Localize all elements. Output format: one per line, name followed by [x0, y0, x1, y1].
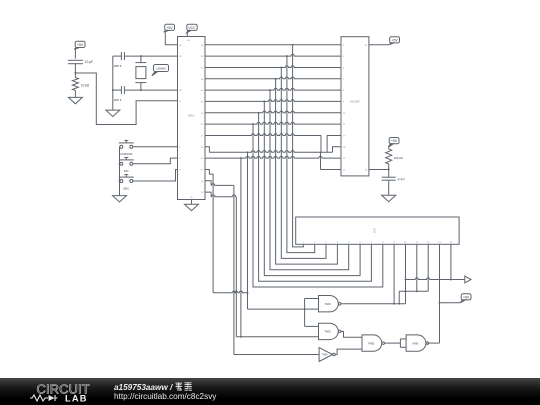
capacitor C1 10uF	[68, 60, 93, 64]
wire LCD pin13 hang	[439, 244, 441, 343]
wire XTAL1	[124, 55, 177, 57]
wire XTAL2	[124, 89, 177, 91]
wire LCD E row	[399, 290, 428, 303]
wire	[74, 64, 76, 78]
wire	[165, 32, 177, 45]
wire bus AD2	[205, 66, 341, 69]
wire WR	[205, 156, 341, 159]
ground	[68, 97, 82, 103]
capacitor C3 20pF	[114, 86, 125, 102]
wire data D0 to LCD	[293, 45, 304, 247]
output port arrow	[465, 276, 471, 283]
wire NAND4 input tie	[400, 339, 406, 347]
svg-text:+5V: +5V	[392, 38, 399, 42]
wire data D2 to LCD	[281, 68, 326, 259]
capacitor C4 47pF	[382, 177, 406, 181]
wire	[113, 55, 122, 57]
svg-text:VCC: VCC	[189, 26, 197, 30]
ground	[382, 195, 396, 201]
crystal X1 12MHz	[135, 56, 146, 90]
wire data D7 to LCD	[253, 124, 383, 287]
wire RD	[205, 147, 341, 153]
wire	[113, 89, 122, 91]
power flag VCC	[187, 24, 198, 33]
svg-text:12MHZ: 12MHZ	[156, 66, 166, 70]
svg-text:DEC: DEC	[123, 186, 129, 190]
wire	[133, 170, 178, 182]
wire LCD pin9 hang	[393, 244, 395, 303]
wire NAND4 out	[427, 342, 439, 344]
svg-text:7400: 7400	[324, 302, 331, 306]
wire LCD pin12 hang	[427, 244, 429, 291]
wire LCD pin10 hang	[405, 244, 407, 303]
svg-text:8051: 8051	[188, 113, 194, 117]
wire	[388, 180, 390, 195]
wire data D3 to LCD	[276, 79, 338, 264]
power flag +5V (EA pin31)	[164, 24, 175, 32]
ground	[106, 110, 120, 116]
svg-text:+5V: +5V	[463, 295, 470, 299]
wire data D6 to LCD	[259, 113, 372, 281]
svg-text:7400: 7400	[412, 341, 419, 345]
svg-text:CURSOR: CURSOR	[120, 152, 132, 156]
power flag +5V (DS12887)	[389, 37, 400, 45]
nand gate U2A 7400	[319, 296, 341, 312]
wire P3 stair C	[205, 192, 236, 337]
wire bus AD0	[205, 44, 341, 46]
op-amp U5 LCD module	[296, 217, 459, 244]
op-amp U1 8051 MCU	[178, 37, 206, 200]
svg-text:10 kΩ: 10 kΩ	[81, 84, 90, 88]
wire NAND1 inputs tie	[305, 299, 319, 327]
wire	[133, 158, 178, 164]
capacitor C2 20pF	[114, 52, 125, 68]
op-amp U6 DS12887 RTC	[341, 37, 369, 176]
wire VCC DS12887	[369, 44, 389, 46]
inverter U4A 7404	[319, 348, 335, 362]
wire bus AD4	[205, 88, 341, 91]
wire bus AD1	[205, 54, 341, 57]
resistor R1 10k	[72, 78, 89, 91]
ground	[185, 204, 199, 210]
switch S2 INC	[119, 157, 134, 173]
switch S1 CURSOR	[119, 140, 134, 156]
wire	[186, 32, 188, 36]
wire NAND1 out	[341, 303, 406, 305]
wire CS	[321, 152, 342, 169]
wire gate feed 2	[240, 158, 242, 338]
nand gate U3A 7400	[362, 335, 384, 351]
wire gate feed 3	[236, 336, 318, 338]
svg-text:7400: 7400	[324, 330, 331, 334]
nand gate U3B 7400	[406, 335, 428, 351]
wire bus AD7	[205, 122, 341, 125]
ground	[113, 196, 127, 202]
svg-text:+5V: +5V	[77, 43, 84, 47]
attribution text	[114, 382, 216, 401]
svg-text:20P F: 20P F	[114, 64, 122, 68]
power flag +5V (pullup)	[388, 138, 399, 148]
wire cap ground rail	[112, 56, 114, 110]
wire LCD pin11 hang	[416, 244, 418, 291]
wire	[388, 147, 390, 149]
wire NAND2 out	[341, 331, 362, 337]
power flag +5V (reset RC)	[74, 41, 85, 49]
svg-text:+5V: +5V	[391, 139, 398, 143]
svg-text:7400: 7400	[368, 341, 375, 345]
wire	[388, 164, 390, 177]
wire to NAND A inputs	[213, 291, 248, 294]
svg-text:INC: INC	[124, 169, 129, 173]
wire	[74, 91, 76, 98]
label 100k	[394, 156, 404, 160]
svg-text:20P F: 20P F	[114, 98, 122, 102]
wire NAND2 inA	[305, 325, 319, 327]
wire +5V hook	[440, 302, 461, 304]
svg-text:DS12887: DS12887	[350, 102, 360, 104]
wire data D1 to LCD	[287, 56, 315, 253]
wire	[74, 49, 76, 58]
wire gate feed 4	[234, 354, 319, 356]
wire ALE	[205, 134, 341, 153]
svg-text:10 µF: 10 µF	[85, 60, 93, 64]
resistor R2 100k	[386, 149, 392, 164]
svg-text:100 kΩ: 100 kΩ	[394, 156, 404, 160]
annotation 12MHZ	[152, 65, 169, 76]
wire data D4 to LCD	[270, 90, 349, 270]
switch S3 DEC	[119, 175, 134, 191]
wire output port row	[406, 278, 465, 280]
svg-text:47P F: 47P F	[398, 177, 406, 181]
svg-text:LAB: LAB	[65, 394, 88, 404]
wire RST net	[75, 73, 177, 125]
nand gate U2B 7400	[319, 323, 341, 339]
wire NAND3 out	[385, 342, 401, 344]
wire button ground rail	[119, 147, 121, 196]
svg-text:LCD: LCD	[373, 228, 377, 233]
wire INV out	[335, 349, 362, 354]
svg-text:7404: 7404	[322, 354, 328, 357]
wire	[133, 146, 178, 148]
wire bus AD5	[205, 100, 341, 103]
wire data D5 to LCD	[264, 101, 360, 275]
wire IRQ row	[369, 169, 390, 171]
wire gate feed 1	[248, 152, 319, 310]
power flag +5V (LCD)	[460, 294, 471, 303]
wire P3 stair A	[205, 170, 213, 293]
wire P3 stair B	[205, 181, 234, 355]
svg-text:+5V: +5V	[167, 26, 174, 30]
wire bus AD6	[205, 111, 341, 114]
CircuitLab logo	[28, 378, 108, 405]
wire pin20 ground	[191, 200, 193, 205]
wire LCD pin14 hang	[450, 244, 452, 280]
wire bus AD3	[205, 77, 341, 80]
